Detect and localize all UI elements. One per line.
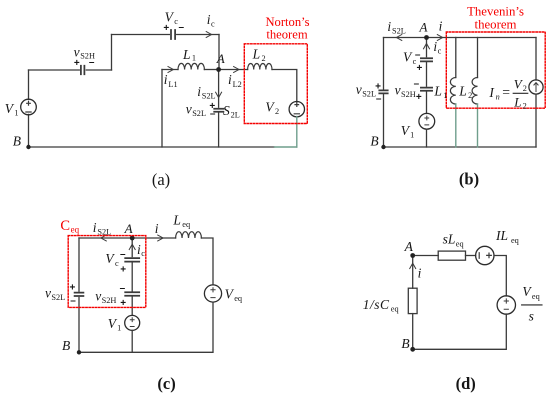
wire between caps (c) <box>131 262 133 291</box>
svg-text:2: 2 <box>262 54 266 63</box>
svg-text:V: V <box>105 251 115 266</box>
voltage source V_eq/s (d) <box>497 296 515 314</box>
svg-text:–: – <box>415 49 421 60</box>
wire top horizontal a (V_c branch) <box>112 34 220 36</box>
svg-text:A: A <box>216 51 225 66</box>
arrow i_L2 (a) <box>234 67 239 73</box>
node A dot (c) <box>130 236 135 241</box>
wire L_eq to right corner (c) <box>201 238 213 285</box>
svg-text:2: 2 <box>523 84 527 93</box>
svg-text:–: – <box>70 296 76 307</box>
svg-text:i: i <box>387 19 391 34</box>
voltage source V2 (a) <box>289 102 304 117</box>
svg-text:V: V <box>403 50 413 65</box>
wire S2L branch vertical (a) <box>218 70 220 148</box>
inductor L1 vertical (b) <box>450 77 455 104</box>
svg-text:–: – <box>89 57 95 68</box>
svg-text:+: + <box>69 282 75 293</box>
node B dot (c) <box>77 350 81 354</box>
svg-text:L: L <box>172 212 181 227</box>
svg-text:L: L <box>458 83 467 98</box>
svg-text:L2: L2 <box>233 80 242 89</box>
wire vertical riser a <box>111 35 113 71</box>
wire cap to V1 (c) <box>131 296 133 316</box>
wire current source top (b) <box>535 38 537 81</box>
arrow i_S2L down (a) <box>216 92 222 97</box>
svg-text:eq: eq <box>456 239 464 248</box>
svg-text:L1: L1 <box>168 80 177 89</box>
arrow i_L1 (a) <box>168 67 173 73</box>
svg-text:V: V <box>265 99 275 114</box>
wire L1 stub vertical (a) <box>161 70 163 148</box>
svg-text:i: i <box>197 84 201 99</box>
svg-text:B: B <box>13 134 21 149</box>
svg-text:–: – <box>179 22 185 33</box>
svg-text:–: – <box>210 109 216 120</box>
svg-text:eq: eq <box>234 294 242 303</box>
wire L2 to V2 (a) <box>272 70 297 102</box>
svg-text:(c): (c) <box>157 374 175 393</box>
svg-text:s: s <box>529 309 534 324</box>
svg-text:L: L <box>252 47 261 62</box>
wire middle branch top (c) <box>131 238 133 257</box>
svg-text:2: 2 <box>275 107 279 116</box>
svg-text:n: n <box>496 93 500 102</box>
wire left vertical a (V1 branch) <box>28 70 30 147</box>
svg-text:L: L <box>513 94 521 109</box>
wire cap to V1 (b) <box>426 91 428 114</box>
svg-text:A: A <box>404 239 414 254</box>
Thevenin theorem red dashed box (b) <box>446 32 545 108</box>
svg-text:c: c <box>438 47 442 56</box>
wire V2 to rail green (a) <box>296 117 298 148</box>
svg-text:B: B <box>370 134 378 149</box>
svg-text:(d): (d) <box>456 374 476 393</box>
capacitor S2L plates (a) <box>214 109 223 112</box>
svg-text:i: i <box>228 72 232 87</box>
capacitor V_c (b) <box>421 58 432 61</box>
svg-text:–: – <box>376 93 382 104</box>
inductor L_eq (c) <box>176 232 202 238</box>
capacitor v_S2H (b) <box>421 88 432 91</box>
node B dot (b) <box>381 145 385 149</box>
arrow i up (d) <box>410 263 416 268</box>
svg-text:v: v <box>186 102 192 117</box>
Norton theorem red dashed box (a) <box>244 44 307 124</box>
wire L1 to node A (a) <box>204 69 218 71</box>
svg-text:S2L: S2L <box>97 228 111 237</box>
capacitor V_c (c) <box>125 258 139 262</box>
svg-text:v: v <box>95 289 101 304</box>
svg-text:S2H: S2H <box>401 90 416 99</box>
svg-text:IL: IL <box>495 228 508 243</box>
svg-text:A: A <box>419 20 428 35</box>
svg-text:sL: sL <box>443 232 456 247</box>
svg-text:V: V <box>5 101 15 116</box>
svg-text:V: V <box>522 284 532 299</box>
svg-text:eq: eq <box>391 305 399 314</box>
node B (a) <box>26 145 30 149</box>
svg-text:c: c <box>141 249 145 258</box>
svg-text:2L: 2L <box>231 110 240 119</box>
wire top-left horizontal a (v_S2H branch) <box>29 69 112 71</box>
wire L1 branch top (b) <box>455 38 457 78</box>
svg-text:(b): (b) <box>459 169 479 188</box>
node A dot (a) <box>216 67 221 72</box>
svg-text:2: 2 <box>468 91 472 100</box>
arrow i right (c) <box>158 235 163 241</box>
wire bottom rail a green part <box>275 146 297 148</box>
wire L1 bottom green (b) <box>455 104 457 147</box>
impedance box sL_eq (d) <box>438 251 465 260</box>
wire left vertical c (v_S2L branch) <box>78 238 80 352</box>
impedance box 1/sC_eq (d) <box>408 288 417 313</box>
wire top rail b <box>384 37 537 39</box>
voltage source V_eq (c) <box>204 285 221 302</box>
wire top rail c <box>79 237 176 239</box>
wire vertical into node A (a) <box>218 35 220 70</box>
arrow i_S2L left (b) <box>396 35 401 41</box>
wire L1 horizontal with arrow (a) <box>162 69 178 71</box>
capacitor v_S2L (b) <box>379 90 387 93</box>
svg-text:+: + <box>416 63 422 74</box>
svg-text:v: v <box>45 285 51 300</box>
svg-text:B: B <box>401 336 409 351</box>
wire V1 to rail (b) <box>426 129 428 147</box>
svg-text:–: – <box>414 79 420 90</box>
voltage source V1 (b) <box>419 113 435 129</box>
svg-text:Thevenin’s: Thevenin’s <box>467 4 524 18</box>
wire V_eq to rail (c) <box>79 302 213 352</box>
svg-text:(a): (a) <box>152 170 170 189</box>
svg-text:–: – <box>120 283 126 294</box>
svg-text:eq: eq <box>511 236 519 245</box>
svg-text:B: B <box>62 338 70 353</box>
svg-text:1/sC: 1/sC <box>363 297 390 312</box>
svg-text:=: = <box>502 85 510 100</box>
svg-text:+: + <box>416 92 422 103</box>
svg-text:1: 1 <box>410 131 414 140</box>
svg-text:i: i <box>155 221 159 236</box>
svg-text:v: v <box>356 82 362 97</box>
svg-text:1: 1 <box>192 53 196 62</box>
svg-text:2: 2 <box>523 102 527 111</box>
capacitor v_S2L (c) <box>75 293 84 296</box>
arrow i right (b) <box>437 35 442 41</box>
svg-text:S2H: S2H <box>102 296 117 305</box>
svg-text:L: L <box>182 47 191 62</box>
arrow i_c up (b) <box>424 43 430 48</box>
wire source down to rail (d) <box>413 314 507 349</box>
inductor L1 (a) <box>178 63 204 69</box>
arrow i_c up (c) <box>129 244 135 249</box>
current source I_n (b) <box>529 80 543 94</box>
svg-text:–: – <box>120 249 126 260</box>
svg-text:S2L: S2L <box>192 109 206 118</box>
svg-text:eq: eq <box>182 220 190 229</box>
svg-text:S2L: S2L <box>392 26 406 35</box>
capacitor v_S2H (c) <box>125 292 139 296</box>
wire middle branch top (b) <box>426 38 428 57</box>
svg-text:i: i <box>439 19 443 34</box>
svg-text:V: V <box>225 286 235 301</box>
wire L2 branch top (b) <box>477 38 479 78</box>
svg-text:+: + <box>163 23 169 34</box>
node A dot (b) <box>424 35 429 40</box>
svg-text:+: + <box>120 265 126 276</box>
capacitor v_S2H (a) <box>81 66 85 74</box>
capacitor V_c (a) <box>171 30 175 39</box>
svg-text:i: i <box>164 72 168 87</box>
svg-text:A: A <box>124 221 133 236</box>
svg-text:S2L: S2L <box>51 293 65 302</box>
voltage source V1 (c) <box>125 315 140 330</box>
svg-text:c: c <box>115 259 119 268</box>
svg-text:I: I <box>488 85 495 100</box>
C_eq red dashed box (c) <box>68 236 146 308</box>
svg-text:i: i <box>418 266 422 281</box>
svg-text:i: i <box>93 220 97 235</box>
wire left vertical b (v_S2L branch) <box>383 38 385 148</box>
node A dot (d) <box>410 253 415 258</box>
svg-text:1: 1 <box>117 323 121 332</box>
svg-text:S: S <box>223 103 230 118</box>
node B dot (d) <box>410 347 415 352</box>
wire middle between caps (b) <box>426 61 428 86</box>
wire left vertical top (d) <box>412 256 414 289</box>
arrow inside current source (b) <box>534 83 538 92</box>
svg-text:1: 1 <box>14 109 18 118</box>
arrow i_c (a) <box>206 32 211 38</box>
svg-text:v: v <box>395 82 401 97</box>
wire A to sLeq box (d) <box>413 255 439 257</box>
wire bottom rail a <box>29 146 275 148</box>
wire A to L2 (a) <box>219 69 248 71</box>
svg-text:C: C <box>60 218 70 234</box>
inductor L2 vertical (b) <box>472 77 477 104</box>
wire bottom rail b <box>384 146 537 148</box>
wire L2 bottom green (b) <box>477 104 479 147</box>
wire source to right corner (d) <box>494 256 506 297</box>
svg-text:c: c <box>211 20 215 29</box>
current source IL_eq (d) <box>476 246 494 264</box>
svg-text:theorem: theorem <box>266 27 307 41</box>
svg-text:S2L: S2L <box>202 92 216 101</box>
arrow i_S2L left (c) <box>101 235 106 241</box>
voltage source V1 (a) <box>21 99 37 115</box>
wire current source bottom (b) <box>535 94 537 147</box>
wire V1 to rail (c) <box>131 330 133 352</box>
svg-text:+: + <box>375 81 381 92</box>
svg-text:eq: eq <box>71 224 80 234</box>
svg-text:+: + <box>74 58 80 69</box>
svg-text:+: + <box>120 298 126 309</box>
wire box to ILeq source (d) <box>466 255 476 257</box>
svg-text:1: 1 <box>443 91 447 100</box>
svg-text:S2L: S2L <box>362 90 376 99</box>
inductor L2 (a) <box>248 63 272 69</box>
svg-text:L: L <box>433 83 442 98</box>
svg-text:theorem: theorem <box>475 17 517 31</box>
wire left vertical bottom (d) <box>412 314 414 350</box>
svg-text:eq: eq <box>532 292 540 301</box>
